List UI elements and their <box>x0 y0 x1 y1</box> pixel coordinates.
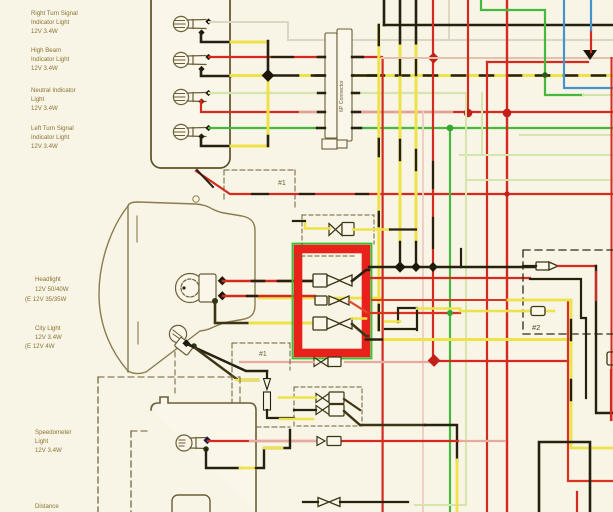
wire red neutral ground <box>201 101 613 112</box>
junction bus <box>262 69 275 82</box>
wire red y62 to triangle junction <box>487 61 588 63</box>
wire black y340 stub <box>366 338 385 341</box>
wire red branch y194 from x507 <box>504 191 509 196</box>
connector C2 headlight low <box>315 296 349 305</box>
connector C3 city/ground <box>313 317 352 330</box>
wire black connector C1 right <box>352 270 369 281</box>
label distance <box>35 503 59 510</box>
wire yellow speedo ground segment <box>240 467 256 470</box>
connector A on pale red wire <box>314 357 341 367</box>
bulb left turn indicator <box>173 124 206 139</box>
dashed boundary speedometer area <box>97 377 99 512</box>
junction black y267 x416 <box>411 262 421 272</box>
label right turn signal indicator light <box>31 10 78 35</box>
dashed box connector group C <box>294 387 362 426</box>
wire black stripe on headlight high <box>252 280 313 282</box>
dashed box connector B <box>294 215 374 256</box>
svg-text:Indicator Light: Indicator Light <box>31 19 70 26</box>
wire black high-beam ground to bus <box>201 69 231 76</box>
svg-text:12V 50/40W: 12V 50/40W <box>35 286 69 293</box>
svg-text:Distance: Distance <box>35 503 59 510</box>
wire yellow connector B to bundle <box>353 228 390 231</box>
svg-text:Light: Light <box>35 438 49 445</box>
wire red high beam <box>209 56 382 58</box>
wire black stripe on headlight low <box>247 295 257 297</box>
circled E mark below panel <box>193 196 199 202</box>
wire olive city light diagonal 2 <box>195 348 258 380</box>
terminal stubs at 6P connector <box>316 57 384 128</box>
svg-text:Right Turn Signal: Right Turn Signal <box>31 10 78 17</box>
junction black y267 x433 <box>428 262 438 272</box>
wire black right-turn ground to bus <box>201 33 231 42</box>
speedometer inner window <box>172 495 210 512</box>
speedometer bulb <box>176 435 207 451</box>
wire yellow y425 to x457 <box>425 425 457 462</box>
wire olive connector C3 diagonal down <box>352 324 368 336</box>
bulb high beam indicator <box>173 52 206 67</box>
svg-text:12V 3.4W: 12V 3.4W <box>31 28 58 35</box>
speedometer terminal dots <box>203 436 211 444</box>
city light terminal dots <box>182 339 190 347</box>
svg-text:Indicator Light: Indicator Light <box>31 134 70 141</box>
wire yellow y311 into small rect <box>460 310 554 313</box>
junction green on dashed y75 <box>542 72 548 78</box>
wire black/yellow vertical x400 <box>399 0 402 46</box>
bulb neutral indicator <box>173 89 206 104</box>
headlight terminal dots <box>218 276 227 285</box>
label left turn signal indicator light <box>31 125 74 150</box>
svg-text:12V 3.4W: 12V 3.4W <box>31 105 58 112</box>
red highlight box <box>293 244 372 359</box>
wire black segment y279 <box>530 279 586 398</box>
wire pale section of red y112 <box>300 111 452 113</box>
connector stub right edge <box>607 352 613 365</box>
wire red vertical right edge <box>611 58 613 420</box>
wire red out of hash2 connector <box>558 265 596 267</box>
wire yellow y321 <box>385 320 400 323</box>
wire red connector C1 right <box>352 278 420 281</box>
wire pale red vertical x423 <box>422 112 424 512</box>
city light bulb <box>169 325 193 355</box>
wire red headlight high <box>223 280 313 282</box>
wire yellow left-turn ground segment <box>231 145 268 148</box>
wire yellow y340 long <box>385 338 571 341</box>
wire black city light diagonal <box>187 344 267 371</box>
connector 6P latch tab <box>322 139 347 149</box>
svg-text:#1: #1 <box>259 351 267 358</box>
connector B bullet <box>329 223 354 236</box>
svg-text:City Light: City Light <box>35 325 61 332</box>
wire red vertical x433 <box>432 0 434 360</box>
wire black top horizontal y25 <box>384 24 613 27</box>
svg-text:High Beam: High Beam <box>31 47 61 54</box>
junction red x433 y58 <box>428 52 439 63</box>
wire olive out of D2 down <box>344 411 425 425</box>
wire pale green continuation y97 <box>583 94 613 96</box>
wire yellow y448 segment <box>264 447 282 450</box>
wire red stub right edge <box>610 370 612 420</box>
wire red speedometer light <box>208 440 460 442</box>
svg-text:Headlight: Headlight <box>35 276 61 283</box>
wire yellow right-turn ground segment <box>231 41 268 44</box>
wire pale red y362 <box>240 361 434 363</box>
wire light green neutral <box>209 92 466 94</box>
wire green vertical x450 from y128 <box>449 128 451 512</box>
wire red stripe on x596 <box>595 272 597 300</box>
connector C1 headlight high <box>313 274 352 287</box>
junction red y115 x507 <box>503 109 512 118</box>
junction black y267 x400 <box>394 261 405 272</box>
wire pale green vertical x466 <box>415 93 466 505</box>
wire black speedometer ground <box>206 449 240 468</box>
wire black harness diagonal from panel <box>197 170 213 187</box>
wire olive out of D1 down <box>344 399 360 410</box>
wire black stripes on red y194 <box>252 193 368 195</box>
svg-text:Neutral Indicator: Neutral Indicator <box>31 87 76 94</box>
connector D2 <box>316 405 344 417</box>
wire yellow into D1 <box>279 396 316 399</box>
wire orange y313 <box>368 312 460 314</box>
svg-text:6P Connector: 6P Connector <box>339 80 345 112</box>
wire pale green staircase <box>460 93 613 155</box>
wire black into D2 <box>294 409 316 411</box>
wire black stripes on red y112 <box>253 111 534 113</box>
wire blue vertical x564 <box>564 0 613 88</box>
wire black into hash2 connector <box>523 265 536 267</box>
black box bottom right <box>539 442 590 512</box>
wire pale green y135 <box>520 134 613 136</box>
svg-text:12V 3.4W: 12V 3.4W <box>31 143 58 150</box>
connector D1 <box>316 392 344 404</box>
svg-text:#1: #1 <box>278 180 286 187</box>
svg-text:(E 12V 35/35W: (E 12V 35/35W <box>25 296 67 303</box>
svg-text:Left Turn Signal: Left Turn Signal <box>31 125 74 132</box>
junction red diamond x434 y361 <box>428 354 441 367</box>
svg-text:#2: #2 <box>532 323 540 332</box>
svg-text:Light: Light <box>31 96 45 103</box>
svg-text:12V 3.4W: 12V 3.4W <box>35 447 62 454</box>
wire black y502 <box>303 501 408 503</box>
junction green y313 <box>447 310 453 316</box>
wire red vertical x382 from red y57 corner <box>382 58 384 512</box>
wire red connector C2 diagonal <box>349 301 368 313</box>
wire green corner top right <box>481 0 583 95</box>
wire black y267 from connector C1 <box>369 266 540 269</box>
terminal dots of indicator bulbs <box>198 18 211 139</box>
wire red vertical x507 <box>506 0 508 512</box>
wire pale green branch y180 <box>466 179 613 181</box>
connector hash2 small rect <box>531 307 545 316</box>
wire yellow connector C3 right stub <box>352 317 366 320</box>
wire orange vertical x568 <box>568 302 613 481</box>
wire yellow/black y75 to 6P connector <box>231 74 268 77</box>
wire olive headlight ground <box>215 301 250 323</box>
wire tan pale continuation y58 <box>382 57 613 59</box>
label speedometer light <box>35 429 72 454</box>
headlight shell outline <box>99 202 255 374</box>
junction triangle black <box>583 50 597 60</box>
label high beam indicator light <box>31 47 70 72</box>
connector bullet on speedometer wire <box>317 437 341 446</box>
connector hash2 bullet <box>536 262 558 270</box>
wire yellow y380 stub <box>236 379 258 382</box>
connector 6P <box>325 29 352 141</box>
label neutral indicator light <box>31 87 76 112</box>
wire black stripes on x433 <box>432 162 434 248</box>
wire yellow vertical x457 lower <box>456 460 459 512</box>
svg-text:12V 3.4W: 12V 3.4W <box>35 334 62 341</box>
dashed box hash1 upper <box>224 170 295 210</box>
wire black stripes on red y57 <box>272 56 293 58</box>
svg-text:Speedometer: Speedometer <box>35 429 72 436</box>
bulb right turn indicator <box>173 16 206 31</box>
wire yellow bus vertical <box>267 74 270 136</box>
wire black stub x461 <box>460 249 462 267</box>
junction red y115 x468 <box>464 109 473 118</box>
wire orange y300 <box>372 299 531 301</box>
svg-text:12V 3.4W: 12V 3.4W <box>31 65 58 72</box>
wire yellow y309 <box>417 307 460 310</box>
dashed box hash1 lower <box>232 343 290 427</box>
instrument panel housing <box>151 0 230 168</box>
wire red vertical x487 <box>486 62 488 512</box>
svg-text:Indicator Light: Indicator Light <box>31 56 70 63</box>
wire gray from right turn bulb <box>209 22 613 40</box>
wire black left-turn ground <box>201 136 231 146</box>
wire black corner x596 down <box>596 266 613 413</box>
wire yellow y300 right <box>508 299 571 302</box>
fuse symbol <box>264 379 271 411</box>
wire blue/red stub above triangle <box>590 30 592 52</box>
wire yellow to connector3 <box>250 322 316 325</box>
wire black elbow up <box>256 430 290 468</box>
wire yellow vertical x571 <box>571 300 613 448</box>
bundle bottom elbows <box>385 308 417 330</box>
wire red harness diagonal from panel <box>196 171 613 194</box>
wire gray vertical drop from top <box>448 0 450 40</box>
wire yellow y419 stub <box>280 418 313 420</box>
wire red y278 from box <box>370 277 530 279</box>
svg-text:(E 12V 4W: (E 12V 4W <box>25 343 55 350</box>
junction green y128 <box>447 125 454 132</box>
wire red vertical x468 top <box>467 0 469 115</box>
wire black fuse drop <box>267 372 294 418</box>
speedometer housing <box>151 397 256 512</box>
connector E on black wire y502 <box>318 498 340 507</box>
label city light <box>25 325 62 350</box>
LABELS-LEFT <box>25 10 78 510</box>
wire yellow crossing y298 <box>259 297 380 300</box>
wire green left-turn <box>209 127 613 129</box>
wire red headlight low <box>223 295 315 297</box>
wire yellow vertical x379 <box>377 25 380 330</box>
dashed box hash2 <box>523 250 613 334</box>
wire red corner bottom right inner <box>576 492 578 512</box>
wire yellow into connector B <box>305 221 330 229</box>
headlight bulb <box>176 274 217 303</box>
wire black/yellow vertical x416 <box>415 0 418 46</box>
wire red y362 right <box>434 360 568 362</box>
label headlight <box>25 276 69 303</box>
headlight bulb filament dot <box>182 286 185 289</box>
wire black vertical x384 top <box>383 0 386 25</box>
